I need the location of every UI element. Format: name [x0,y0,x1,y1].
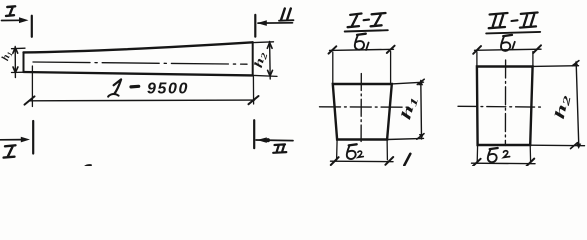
dimension h2 (section II-II) [530,61,584,150]
section mark I (top left) [2,6,32,37]
stray ink smudge bottom left [84,164,92,166]
label h1 (elevation) [0,50,14,63]
dimension h2 (elevation right) [253,42,277,80]
section mark I (bottom left) [0,121,33,158]
label b1 (section II-II) [501,35,515,51]
dimension b1 (section I-I) [329,46,395,83]
label b2 (section II-II) [488,148,510,162]
section I-I box [333,84,392,140]
beam elevation outline [24,42,253,75]
dimension h1 (section I-I) [387,79,424,139]
section mark II (bottom right) [254,120,293,153]
label b1 (section I-I) [355,34,369,50]
dimension b2 (section I-I) [331,140,394,166]
dimension h1 (elevation left) [12,47,26,78]
beam axis centerline [33,62,247,64]
section I-I vertical centerline [360,74,362,142]
svg-text:9500: 9500 [147,81,189,98]
label h1 (section I-I) [397,94,421,122]
section I-I horizontal centerline [320,106,409,108]
label l = 9500 [108,79,189,97]
label h2 (section II-II) [551,93,573,121]
dimension b2 (section II-II) [472,145,536,166]
section II-II box [477,67,533,146]
dimension line L=9500 [25,66,259,107]
section mark II (top right) [255,9,293,37]
title II-II [486,13,540,34]
title I-I [345,13,388,32]
label h2 (elevation) [252,50,270,70]
section II-II vertical centerline [504,60,506,146]
dimension b1 (section II-II) [473,45,541,65]
stray pen stroke below section I-I [404,154,410,166]
section II-II horizontal centerline [458,105,544,108]
label b2 (section I-I) [347,144,364,159]
